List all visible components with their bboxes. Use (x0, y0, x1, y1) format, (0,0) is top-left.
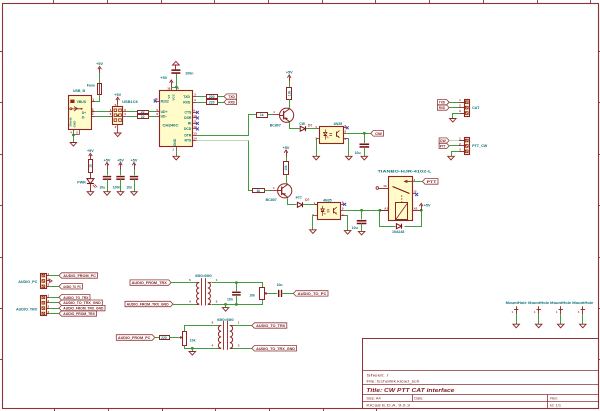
wire J4 pin3 (49, 286, 59, 288)
svg-text:AUDIO_FROM_TRX_GND: AUDIO_FROM_TRX_GND (63, 307, 104, 311)
wire Q1 collector (290, 123, 300, 129)
wire PTT J3 (449, 145, 459, 147)
resistor R9 1k (253, 189, 265, 193)
wire U4 pin4 to gnd (347, 215, 349, 230)
title block (363, 339, 599, 409)
diode D4 1N4148 flyback (380, 211, 396, 227)
capacitor C2 10u (107, 170, 109, 176)
wire U2 to R1 (126, 111, 137, 113)
wire t1 in bottom (173, 304, 196, 306)
svg-text:DTR: DTR (184, 134, 192, 138)
svg-text:1N4148: 1N4148 (392, 230, 404, 234)
power +5V Q2 (286, 152, 288, 158)
svg-text:12: 12 (413, 190, 417, 194)
svg-text:Sheet: /: Sheet: / (366, 372, 389, 377)
resistor R2 22 (138, 115, 149, 119)
svg-text:Date:: Date: (414, 396, 423, 401)
junction A1 (379, 209, 382, 212)
global label AUDIO_FROM_TRX_GND t1 (125, 301, 173, 306)
svg-text:CW: CW (440, 139, 447, 143)
wire TXD J2 (449, 102, 459, 104)
global label AUDIO_FROM_TRX t1 (130, 280, 171, 285)
wire Q2 collector (288, 199, 297, 205)
wire C8 to label (282, 293, 294, 295)
wire U3 pin2 to gnd (316, 139, 318, 157)
svg-text:10u: 10u (99, 185, 105, 189)
svg-text:D?: D? (308, 124, 312, 128)
svg-text:22: 22 (141, 110, 145, 114)
wire R6 to Q1 (289, 99, 291, 107)
power +5V U2 (117, 99, 119, 105)
capacitor C7 10n (236, 283, 238, 292)
svg-text:100n: 100n (113, 185, 121, 189)
capacitor C5 10u (364, 133, 366, 143)
resistor R8 (286, 157, 288, 162)
transistor Q1 BC807 (280, 108, 294, 122)
K1 contact armature (393, 187, 410, 194)
ground C1 inverted (173, 61, 180, 65)
svg-text:D+: D+ (82, 111, 86, 115)
wire TXD to R3 (197, 96, 207, 98)
ground usb (70, 143, 77, 147)
svg-text:AUDIO_FROM_PC: AUDIO_FROM_PC (63, 274, 96, 278)
junction A2 (420, 209, 423, 212)
ground MK3 (557, 324, 564, 328)
svg-text:KiCad E.D.A. 9.0.3: KiCad E.D.A. 9.0.3 (366, 402, 410, 407)
wire t1 in top (171, 282, 196, 284)
svg-text:220: 220 (209, 100, 215, 104)
ground MK4 (580, 324, 587, 328)
svg-text:2: 2 (92, 112, 94, 116)
svg-text:220: 220 (161, 336, 167, 340)
junction CW filter (363, 132, 366, 135)
ground C5 (361, 156, 368, 160)
global label AUDIO_FROM_TRX_GND j5 (59, 305, 105, 310)
global label CW j3 (439, 138, 449, 143)
svg-text:D-: D- (82, 116, 85, 120)
svg-text:+5V: +5V (286, 71, 293, 75)
svg-text:+5V: +5V (114, 93, 121, 97)
junction C7 top (235, 281, 238, 284)
power +5V C4 (134, 164, 136, 170)
svg-text:PTT: PTT (427, 180, 438, 184)
wire D3 to U4 (303, 204, 317, 206)
capacitor C6 10u (361, 210, 363, 219)
resistor R6 (289, 82, 291, 88)
resistor R5 (90, 159, 92, 162)
svg-text:AUDIO_TO_TRX_GND: AUDIO_TO_TRX_GND (63, 301, 101, 305)
svg-text:CW: CW (299, 122, 305, 126)
wire J5 pin2 (49, 302, 59, 304)
svg-text:+5V: +5V (283, 146, 290, 150)
global label AUDIO_TO_PC j4 (59, 284, 83, 289)
connector J4 AUDIO_PC (41, 274, 47, 289)
ground TR1 (222, 308, 229, 312)
svg-text:RTS: RTS (185, 139, 193, 143)
wire RTS to PTT driver (197, 140, 249, 142)
svg-text:USB_B: USB_B (73, 89, 85, 93)
ground J3 (448, 156, 455, 160)
svg-text:AUDIO_TO_TRX: AUDIO_TO_TRX (256, 324, 286, 328)
svg-text:BC807: BC807 (266, 198, 277, 202)
junction usb gnd (72, 134, 75, 137)
svg-text:PWR: PWR (77, 180, 86, 184)
svg-text:VCC: VCC (171, 93, 175, 100)
svg-text:RXD: RXD (183, 100, 191, 104)
wire U2 to R2 (126, 116, 137, 118)
global label AUDIO_TO_PC out (293, 291, 328, 296)
wire U1 gnd (176, 151, 178, 156)
capacitor C1 100n (176, 74, 178, 87)
capacitor C3 100n (120, 170, 122, 176)
svg-text:+5V: +5V (160, 76, 167, 80)
ground C3 (117, 192, 124, 196)
global label RXD cat (437, 105, 449, 110)
svg-text:USB1C6: USB1C6 (122, 100, 138, 104)
power +5V LED (90, 155, 92, 161)
svg-text:10k: 10k (287, 91, 291, 97)
wire R3 to TXD label (218, 96, 225, 98)
svg-text:100n: 100n (185, 72, 193, 76)
svg-text:+5V: +5V (104, 158, 111, 162)
svg-text:AUDIO_FROM_TRX: AUDIO_FROM_TRX (63, 312, 95, 316)
svg-text:4N35: 4N35 (323, 198, 332, 202)
resistor R3 220 (207, 95, 218, 99)
svg-text:RXD: RXD (439, 106, 445, 110)
svg-text:Fuse: Fuse (87, 83, 95, 87)
connector J2 CAT (465, 100, 470, 117)
ground C6 (358, 231, 365, 235)
svg-text:10n: 10n (227, 298, 233, 302)
svg-text:AUDIO_FROM_TRX: AUDIO_FROM_TRX (132, 281, 168, 285)
IC U1 CH340C (160, 91, 193, 147)
power +5V Q1 (289, 76, 291, 82)
svg-text:AUDIO_FROM_TRX_GND: AUDIO_FROM_TRX_GND (127, 302, 170, 306)
ground LED (87, 192, 94, 196)
global label PTT j3 (439, 143, 449, 148)
svg-text:16: 16 (167, 87, 171, 91)
svg-text:14: 14 (193, 137, 197, 141)
global label AUDIO_FROM_TRX j5 (59, 311, 97, 316)
wire V3 VCC tie (171, 87, 176, 89)
wire D- to U2 (95, 116, 110, 118)
svg-text:A2: A2 (414, 207, 418, 211)
junction VCC (175, 86, 178, 89)
svg-text:AUDIO_TRX: AUDIO_TRX (16, 308, 38, 312)
svg-text:RI: RI (188, 122, 191, 126)
wire R2 to UD- (148, 116, 156, 118)
wire D2 to U3 (306, 128, 317, 130)
svg-text:CW: CW (375, 132, 382, 136)
ground U3 pin4 (346, 156, 353, 160)
svg-text:13: 13 (383, 184, 387, 188)
junction C7 bottom (235, 303, 238, 306)
svg-text:CH340C: CH340C (163, 124, 180, 128)
svg-text:600:600: 600:600 (217, 318, 234, 322)
ground MK2 (535, 324, 542, 328)
wire t2 out bottom (233, 348, 252, 350)
wire t1 out bottom (212, 300, 263, 305)
svg-text:Title: CW PTT CAT interface: Title: CW PTT CAT interface (366, 388, 454, 394)
wire t2 out top (233, 325, 252, 327)
svg-text:10k: 10k (190, 339, 196, 343)
wire t1 gnd (225, 304, 227, 307)
svg-text:D?: D? (305, 198, 309, 202)
svg-text:R232: R232 (161, 99, 169, 103)
svg-text:1k: 1k (89, 164, 93, 168)
global label AUDIO_FROM_PC t2 (116, 335, 155, 341)
svg-text:Rev:: Rev: (550, 396, 558, 401)
wire RV2 bottom to TR2 (185, 346, 219, 349)
wire RXD J2 (449, 107, 459, 109)
svg-text:10k: 10k (249, 294, 255, 298)
svg-text:11: 11 (193, 120, 197, 124)
svg-text:Id: 1/1: Id: 1/1 (550, 402, 561, 407)
ground U4 pin4 (344, 231, 351, 235)
wire R1 to UD+ (148, 111, 156, 113)
wire R10 to RV2 (169, 337, 179, 339)
global label AUDIO_FROM_PC (59, 273, 98, 278)
wire fuse to VBUS (95, 95, 100, 102)
svg-text:AUDIO_TO_PC: AUDIO_TO_PC (298, 292, 327, 296)
global label AUDIO_TO_TRX j5 (59, 295, 90, 300)
svg-text:+5V: +5V (117, 158, 124, 162)
svg-text:GND: GND (173, 138, 177, 146)
wire t2 gnd (192, 348, 194, 351)
svg-text:600:600: 600:600 (195, 274, 212, 278)
svg-text:VBUS: VBUS (77, 100, 87, 104)
svg-text:MountHole: MountHole (506, 301, 527, 305)
svg-text:MountHole: MountHole (572, 301, 593, 305)
wire U3 pin5 to CW label (346, 133, 370, 135)
wire U4 pin5 to relay (344, 210, 389, 212)
svg-text:BC807: BC807 (270, 124, 281, 128)
svg-text:+5V: +5V (87, 149, 94, 153)
svg-text:AUDIO_TO_TRX: AUDIO_TO_TRX (63, 296, 89, 300)
svg-text:+5V: +5V (131, 158, 138, 162)
svg-text:Size: A4: Size: A4 (366, 396, 381, 401)
svg-text:10n: 10n (126, 185, 132, 189)
svg-text:PTT: PTT (440, 144, 447, 148)
svg-text:PTT: PTT (296, 196, 303, 200)
svg-text:TIANBO-HJR-4102-L: TIANBO-HJR-4102-L (378, 169, 433, 173)
global label AUDIO_TO_TRX_GND j5 (59, 300, 102, 305)
wire J2 gnd (453, 114, 460, 119)
resistor R7 1k (257, 113, 268, 118)
svg-text:AUDIO_TO_TRX_GND: AUDIO_TO_TRX_GND (256, 347, 295, 351)
ground TR2 (189, 352, 196, 356)
svg-text:+5V: +5V (424, 203, 431, 207)
svg-text:1k: 1k (260, 113, 264, 117)
svg-text:TXD: TXD (228, 95, 235, 99)
global label RXD (224, 99, 237, 104)
no-connect arrow J4 pin2 (50, 279, 53, 282)
wire D+ to U2 (95, 111, 110, 113)
ground MK1 (513, 324, 520, 328)
resistor R1 22 (138, 111, 149, 114)
svg-text:AUDIO_TO_PC: AUDIO_TO_PC (63, 285, 81, 289)
ground C2 (104, 192, 111, 196)
power +5V C3 (120, 164, 122, 170)
svg-text:UD-: UD- (161, 114, 167, 118)
svg-text:4N35: 4N35 (334, 122, 343, 126)
wire R4 to RXD label (218, 102, 225, 104)
svg-text:+5V: +5V (96, 62, 103, 66)
svg-text:A1: A1 (384, 207, 388, 211)
wire RV2 top to TR2 (185, 326, 219, 332)
global label CW (371, 131, 384, 137)
wire RXD to R4 (197, 102, 207, 104)
connector J5 AUDIO_TRX (41, 296, 47, 316)
resistor R10 220 (160, 336, 170, 340)
power +5V fuse top (99, 68, 101, 74)
wire J5 pin3 (49, 308, 59, 310)
power +5V relay (421, 205, 423, 211)
svg-text:RXD: RXD (228, 100, 235, 104)
svg-text:AUDIO_FROM_PC: AUDIO_FROM_PC (118, 336, 151, 340)
ground U2 (114, 133, 121, 137)
ground U1 (173, 156, 180, 160)
ground J2 (450, 119, 457, 123)
wire CW J3 pale (449, 140, 459, 142)
svg-text:22: 22 (141, 115, 145, 119)
junction C6 (360, 209, 363, 212)
ground U4 pin2 (310, 230, 317, 234)
wire t1 out top (212, 283, 263, 288)
svg-text:220: 220 (209, 95, 215, 99)
global label TXD (224, 94, 237, 99)
svg-text:10u: 10u (277, 283, 283, 287)
wire U4 pin2 to gnd (312, 215, 314, 230)
svg-text:CTS: CTS (185, 111, 193, 115)
connector J3 PTT_CW (465, 138, 470, 155)
K1 coil (401, 195, 403, 202)
global label PTT relay (422, 179, 438, 185)
wire J5 pin1 (49, 297, 59, 299)
transformer TR1 600:600 (201, 278, 203, 305)
svg-text:DSR: DSR (184, 116, 192, 120)
svg-text:10u: 10u (352, 226, 358, 230)
ground U3 pin2 (313, 156, 320, 160)
wire J3 gnd (452, 152, 460, 157)
svg-text:TXD: TXD (183, 95, 190, 99)
global label TXD cat (437, 100, 449, 105)
wire J5 pin4 (49, 313, 59, 315)
transistor Q2 BC807 (278, 184, 292, 198)
wire R8 to Q2 (286, 174, 288, 183)
transformer TR2 600:600 (223, 321, 225, 350)
wire U3 pin4 to gnd (348, 139, 350, 157)
wire RV1 wiper (268, 293, 277, 295)
global label AUDIO_TO_TRX_GND out (252, 346, 297, 351)
svg-text:GND: GND (73, 120, 77, 128)
svg-text:DCD: DCD (184, 127, 192, 131)
optocoupler U4 4N35 (318, 203, 341, 220)
svg-text:10u: 10u (355, 151, 361, 155)
wire usb gnd (73, 135, 75, 143)
optocoupler U3 4N35 (320, 127, 344, 144)
svg-text:AUDIO_PC: AUDIO_PC (18, 280, 37, 284)
svg-text:MountHole: MountHole (550, 301, 571, 305)
power +5V U1 (171, 82, 173, 88)
svg-text:MountHole: MountHole (528, 301, 549, 305)
global label AUDIO_TO_TRX out (252, 323, 287, 328)
svg-text:13: 13 (193, 132, 197, 136)
wire DTR to CW driver (197, 115, 257, 136)
wire J4 pin1 (49, 275, 59, 277)
svg-text:PTT_CW: PTT_CW (472, 144, 488, 148)
junction t1 gnd (224, 303, 227, 306)
svg-text:File: Echolink.kicad_sch: File: Echolink.kicad_sch (366, 379, 419, 384)
capacitor C4 10n (134, 170, 136, 176)
junction t2 gnd (191, 347, 194, 350)
resistor R4 220 (207, 100, 218, 105)
svg-text:CAT: CAT (472, 106, 480, 110)
ground C4 (131, 192, 138, 196)
svg-text:10k: 10k (284, 165, 288, 171)
power +5V C2 (107, 164, 109, 170)
svg-text:TXD: TXD (439, 101, 445, 105)
svg-text:1k: 1k (256, 189, 260, 193)
svg-text:V3: V3 (167, 95, 171, 99)
